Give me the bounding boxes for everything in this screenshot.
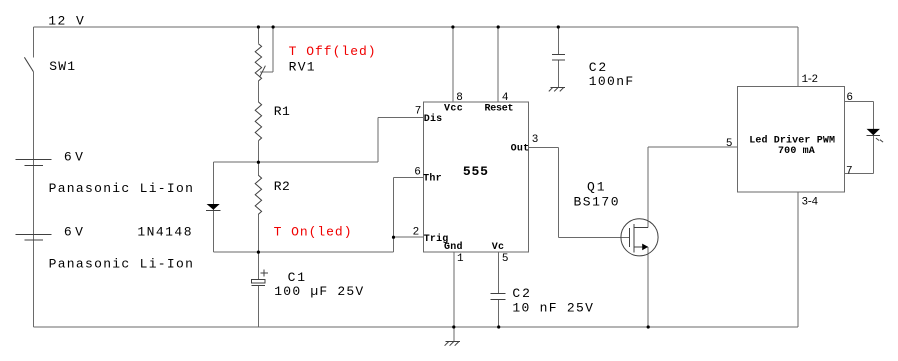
- svg-text:Thr: Thr: [423, 173, 442, 185]
- svg-text:1-2: 1-2: [802, 74, 819, 86]
- svg-text:5: 5: [726, 138, 733, 150]
- svg-text:3-4: 3-4: [802, 197, 819, 209]
- svg-text:Vcc: Vcc: [444, 103, 463, 114]
- svg-text:7: 7: [415, 106, 422, 118]
- svg-text:8: 8: [456, 92, 463, 104]
- svg-text:BS170: BS170: [574, 194, 619, 209]
- svg-text:C1: C1: [288, 270, 306, 285]
- svg-text:2: 2: [413, 227, 420, 239]
- svg-text:Dis: Dis: [424, 113, 443, 125]
- svg-text:T On(led): T On(led): [274, 225, 352, 240]
- svg-text:5: 5: [502, 253, 509, 265]
- svg-text:100 µF 25V: 100 µF 25V: [274, 284, 363, 299]
- svg-text:7: 7: [846, 165, 853, 177]
- svg-text:R1: R1: [274, 104, 290, 119]
- svg-text:555: 555: [463, 164, 488, 179]
- svg-text:SW1: SW1: [49, 59, 75, 74]
- svg-text:Panasonic Li-Ion: Panasonic Li-Ion: [49, 181, 193, 196]
- svg-text:Vc: Vc: [492, 242, 504, 253]
- svg-text:Gnd: Gnd: [444, 241, 463, 253]
- svg-text:3: 3: [532, 134, 539, 146]
- svg-text:Panasonic Li-Ion: Panasonic Li-Ion: [49, 256, 193, 271]
- svg-text:Out: Out: [511, 144, 529, 155]
- svg-text:Reset: Reset: [485, 103, 514, 114]
- svg-text:C2: C2: [512, 286, 530, 301]
- svg-text:100nF: 100nF: [589, 74, 634, 89]
- svg-text:6: 6: [414, 167, 421, 179]
- svg-text:R2: R2: [274, 179, 290, 194]
- svg-text:Led Driver PWM: Led Driver PWM: [749, 134, 835, 146]
- svg-text:1: 1: [457, 253, 464, 265]
- svg-text:10 nF 25V: 10 nF 25V: [512, 301, 593, 316]
- svg-text:Q1: Q1: [587, 180, 605, 195]
- svg-text:6: 6: [846, 92, 853, 104]
- svg-text:T Off(led): T Off(led): [289, 44, 376, 59]
- svg-text:700 mA: 700 mA: [778, 146, 815, 157]
- svg-text:4: 4: [502, 92, 509, 104]
- svg-text:RV1: RV1: [289, 60, 315, 75]
- svg-text:C2: C2: [589, 60, 607, 75]
- svg-text:12 V: 12 V: [48, 14, 84, 29]
